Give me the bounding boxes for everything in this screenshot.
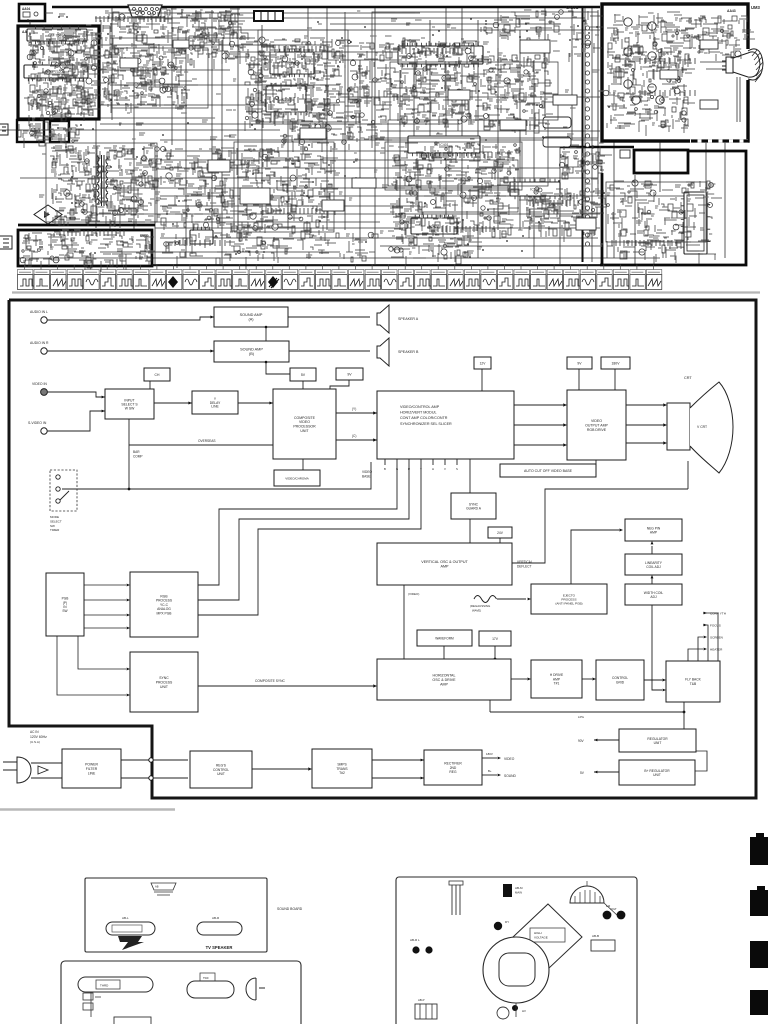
block: RGB process [130, 572, 198, 637]
degaussing wave symbol [474, 596, 497, 603]
wire: 12V to video control [481, 369, 483, 391]
wire: sync guard to vertical osc [469, 519, 471, 543]
block: sync process [130, 652, 198, 712]
board boundary AA04 (thick box, top-left) [19, 4, 45, 21]
svg-text:AB-L: AB-L [122, 916, 129, 920]
block: H drive amp [531, 660, 582, 698]
wire: vertical osc to neg pin loop [512, 489, 688, 563]
wire: video in to input select [47, 392, 105, 397]
op-amp IC U102 (audio amp 2, board AA7B) [24, 65, 88, 78]
svg-text:180V: 180V [486, 752, 493, 756]
wire: link sound amps [265, 327, 267, 341]
svg-text:HEATER: HEATER [710, 647, 723, 651]
svg-text:G: G [396, 467, 398, 471]
svg-text:12V: 12V [480, 361, 487, 365]
wire: large routing loops [46, 12, 706, 242]
wire: overseas line [129, 444, 273, 446]
wire: plug to power filter [31, 762, 62, 764]
svg-text:RGB DRIVE: RGB DRIVE [587, 428, 607, 432]
wire: reg control to smps [252, 768, 308, 770]
svg-text:S: S [456, 467, 458, 471]
cluster: CRT board right parts [687, 16, 755, 67]
svg-text:(A): (A) [248, 318, 254, 322]
black dots L-R [603, 911, 612, 920]
waveform: black diamond glyph 2 [268, 276, 278, 288]
binding mark 3 [750, 941, 768, 968]
cluster: medium discrete components [120, 40, 718, 230]
svg-text:UM31: UM31 [566, 5, 579, 10]
svg-text:5V: 5V [301, 373, 306, 377]
wire: rectifier outputs [482, 757, 497, 759]
connector block (thick bordered, 4-cell) [254, 11, 283, 21]
connector UM01 edge strip [582, 8, 584, 262]
block: video output amp [567, 390, 626, 460]
svg-text:HORIZ/VERT MODUL: HORIZ/VERT MODUL [400, 411, 437, 415]
svg-text:UNIT: UNIT [653, 773, 661, 777]
block: B+ regulator [619, 760, 695, 785]
wire: width coil down to flyback [652, 605, 662, 690]
svg-text:SOUND AMP: SOUND AMP [240, 313, 263, 317]
svg-text:SOUND BOARD: SOUND BOARD [277, 907, 303, 911]
pill component 2 [200, 973, 215, 981]
speaker A symbol [288, 316, 370, 318]
svg-text:AA43: AA43 [727, 9, 736, 13]
block: reg control [190, 751, 252, 788]
svg-text:COMP: COMP [133, 455, 143, 459]
svg-text:WAVEFORM: WAVEFORM [435, 636, 454, 640]
svg-text:UNIT: UNIT [654, 741, 662, 745]
svg-text:AB-B: AB-B [592, 934, 599, 938]
wire: composite to video control (C) [336, 439, 377, 441]
wire: video control to sync guard [469, 459, 471, 493]
svg-text:LPG: LPG [578, 715, 585, 719]
board boundary box below AA7B [17, 120, 44, 142]
svg-text:AB-R L: AB-R L [410, 938, 420, 942]
svg-text:UNIT: UNIT [300, 429, 309, 433]
wire: CH box to input select [149, 381, 151, 389]
cluster: audio board components [27, 30, 106, 126]
wire: regulator link right [695, 751, 707, 771]
svg-text:SYNCHRONIZER SEL SLICER: SYNCHRONIZER SEL SLICER [400, 422, 452, 426]
svg-text:DY: DY [505, 920, 509, 924]
svg-text:UM3: UM3 [751, 5, 761, 10]
svg-text:V: V [444, 467, 446, 471]
block: linearity coil [625, 554, 682, 575]
svg-text:POWER: POWER [85, 763, 98, 767]
svg-text:VOLT: VOLT [610, 907, 617, 911]
binding mark 2 [750, 890, 768, 916]
wire: bar comp vertical [128, 419, 130, 489]
block: clock generator [274, 470, 320, 486]
transformer T801 (chopper) [97, 155, 108, 206]
svg-text:AB-P: AB-P [418, 998, 425, 1002]
black connector block [503, 884, 512, 897]
svg-text:REG: REG [449, 770, 457, 774]
svg-text:AUDIO IN R: AUDIO IN R [30, 341, 49, 345]
IC U301 IF (wide DIP) [398, 46, 483, 64]
svg-text:GRID: GRID [616, 681, 625, 685]
block diagram outer frame [9, 300, 756, 798]
svg-text:AMP: AMP [441, 565, 450, 569]
svg-text:180V: 180V [612, 361, 621, 365]
board boundary CRT socket thick box [560, 146, 634, 149]
wire: s-video in to input select [47, 411, 105, 431]
AC plug symbol [17, 757, 31, 783]
cluster: right mid components [559, 145, 612, 184]
svg-text:FOCUS: FOCUS [710, 623, 721, 627]
svg-text:V CRT: V CRT [697, 425, 707, 429]
block: 180V supply [601, 357, 630, 369]
svg-text:(VIDEO): (VIDEO) [408, 592, 419, 596]
cluster: video drive components [480, 55, 558, 135]
svg-text:BASE: BASE [362, 475, 371, 479]
svg-text:CRT: CRT [684, 376, 692, 380]
svg-text:MODE: MODE [50, 515, 59, 519]
waveform: black diamond glyph 1 [168, 276, 178, 288]
svg-text:(B): (B) [249, 352, 255, 356]
svg-text:OSC & DRIVE: OSC & DRIVE [432, 678, 456, 682]
block: CH select small box [144, 368, 170, 381]
svg-text:90V: 90V [578, 739, 585, 743]
cluster: lower mid components [162, 232, 378, 269]
svg-text:W SW: W SW [125, 406, 135, 410]
svg-text:BAR: BAR [133, 450, 140, 454]
small speaker side glyph [246, 978, 265, 1000]
page edge artifact line [0, 808, 175, 810]
cluster: CRT board components [603, 12, 695, 136]
wire: output amp to CRT [626, 404, 663, 406]
svg-text:COMPOSITE: COMPOSITE [294, 416, 316, 420]
wire: supplies to output amp [578, 369, 580, 390]
svg-text:Y: Y [420, 467, 422, 471]
wire: ejecto top to neg pin [571, 530, 619, 584]
speaker R pill [197, 922, 242, 935]
wire: waveform cell feed ticks [25, 265, 654, 270]
svg-text:9V: 9V [577, 361, 582, 365]
block: 5V supply [290, 368, 316, 381]
svg-text:(ANTI PANEL PGB): (ANTI PANEL PGB) [555, 601, 582, 605]
cluster: AC input components [20, 232, 154, 272]
wire: degauss to ejecto [497, 598, 526, 600]
block: PGB input [46, 573, 84, 636]
block: Y delay line [192, 391, 238, 414]
svg-text:(C): (C) [352, 434, 356, 438]
wire: vertical signal buses [96, 8, 725, 264]
block: smps transformer [312, 749, 372, 788]
svg-text:AB-M: AB-M [515, 886, 523, 890]
wire: PGB bottom to sync process [78, 636, 126, 669]
wire: 17V to h-osc [494, 646, 496, 659]
wire: vertical osc down (video label) [403, 585, 405, 659]
wire: flyback HV outputs [703, 613, 718, 661]
cluster: chroma area components [245, 37, 350, 133]
svg-text:PROCESS: PROCESS [156, 680, 173, 684]
svg-text:VIDEO: VIDEO [299, 420, 310, 424]
block: power filter line [62, 749, 121, 788]
connector tab on speaker board [151, 883, 176, 895]
cluster: IF area components [398, 38, 487, 131]
svg-text:T#1: T#1 [554, 682, 560, 686]
svg-text:9V: 9V [347, 372, 352, 376]
block: video control amp [377, 391, 514, 459]
svg-text:LINE: LINE [211, 405, 219, 409]
svg-text:TV SPEAKER: TV SPEAKER [206, 945, 233, 950]
block: waveform generator [417, 630, 472, 646]
cluster: tuner top row [186, 12, 253, 69]
wire: top power rail bus [52, 6, 600, 9]
wire: 24V to vertical osc [499, 538, 501, 543]
wire: RGB staircase bus 2 [198, 459, 409, 600]
board outline: speaker board bottom [61, 961, 301, 1024]
svg-text:SYNC: SYNC [159, 676, 169, 680]
wire: smps to rectifier [372, 759, 424, 761]
svg-text:SELECT: SELECT [50, 519, 62, 523]
svg-text:SOUND: SOUND [504, 774, 517, 778]
IC U601 CRT drive (vertical package) [684, 192, 707, 254]
wire: thick chassis bus above waveform row [152, 264, 600, 266]
cluster: junction dots [27, 16, 610, 258]
block: sync guard A [451, 493, 496, 519]
svg-text:CONTROL: CONTROL [612, 676, 628, 680]
svg-text:SOUND AMP: SOUND AMP [240, 348, 263, 352]
svg-text:AB-R: AB-R [212, 916, 220, 920]
black dot FB [494, 922, 502, 930]
IC U402 sync jungle [411, 218, 457, 234]
block: neg pin amp [625, 519, 682, 541]
svg-text:AB: AB [155, 885, 159, 889]
connector pins top-left [449, 881, 463, 885]
board boundary AA43 CRT board (thick box, top-right) [602, 4, 748, 141]
CRT funnel (schematic top-right) [743, 49, 755, 80]
svg-text:SW: SW [62, 609, 67, 613]
wire: power filter to thick rail junctions [121, 759, 188, 761]
svg-text:FILTER: FILTER [86, 767, 98, 771]
svg-text:MPX PGB: MPX PGB [156, 611, 172, 615]
svg-text:L R: L R [606, 904, 610, 908]
block: width coil [625, 584, 682, 605]
svg-text:IC401: IC401 [439, 143, 449, 147]
block: regulator [619, 729, 696, 752]
IC U501 regulator [190, 230, 213, 244]
board boundary AA7B (thick box, left audio board) [18, 26, 99, 119]
svg-text:PROCESSOR: PROCESSOR [293, 425, 316, 429]
svg-text:SPEAKER A: SPEAKER A [398, 317, 419, 321]
svg-text:THRD: THRD [100, 984, 109, 988]
svg-text:(U.S.A): (U.S.A) [30, 740, 40, 744]
wire: h-drive to control grid [582, 678, 592, 680]
cluster: deflection components [388, 142, 533, 239]
switch: mode selector (dashed box) [50, 470, 77, 511]
board boundary box AA06 [50, 121, 69, 142]
bottom rectangle part [114, 1017, 151, 1024]
cluster: power primary components [50, 146, 170, 229]
block: 17V supply [479, 631, 511, 646]
cluster: component value label texture [28, 30, 102, 116]
svg-text:TIMER: TIMER [50, 528, 60, 532]
wire: dashed AA43 bottom accent [690, 139, 748, 143]
svg-text:(DEGAUSSING: (DEGAUSSING [470, 604, 491, 608]
cluster: power mid components [161, 147, 245, 233]
block: 9V supply [336, 368, 363, 380]
wire: horizontal signal buses [0, 13, 700, 258]
svg-text:GUARD A: GUARD A [466, 507, 482, 511]
wire: B+ regulator 5V output [594, 771, 619, 773]
svg-text:VIDEO/CONTROL AMP: VIDEO/CONTROL AMP [400, 405, 440, 409]
connector AC inlet (left edge) [0, 236, 12, 249]
wire: waveform gen to h-osc [443, 646, 445, 659]
block: 12V supply [474, 357, 491, 369]
board boundary AA05 power input (thick box bottom-left) [18, 224, 155, 227]
waveform chart row [18, 265, 662, 290]
svg-text:AMP: AMP [440, 682, 448, 686]
wire: RGB staircase bus 3 [198, 459, 421, 615]
block: input select switch [105, 389, 154, 419]
cluster: mid vertical parts [342, 41, 405, 125]
wire: 9V to composite [330, 380, 349, 389]
wire: CRT heater leads [700, 62, 740, 122]
flyback circle [483, 937, 549, 1003]
svg-text:S-VIDEO IN: S-VIDEO IN [28, 421, 47, 425]
diode bridge D801 [34, 205, 62, 224]
svg-text:HORIZONTAL: HORIZONTAL [433, 674, 456, 678]
svg-text:DEFLECT: DEFLECT [517, 565, 532, 569]
high voltage diamond [513, 904, 582, 969]
wire: audio L to sound amp [47, 317, 214, 320]
svg-text:VOLTAGE: VOLTAGE [534, 936, 548, 940]
bottom small parts [497, 1007, 509, 1019]
connector left-edge plug (mid) [0, 124, 8, 135]
block: flyback [666, 661, 720, 702]
block: horizontal osc and drive [377, 659, 511, 700]
svg-text:120V 60Hz: 120V 60Hz [30, 735, 47, 739]
block: 24V supply [488, 527, 512, 538]
speaker L label blob [118, 936, 144, 950]
svg-text:AUDIO IN L: AUDIO IN L [30, 310, 48, 314]
wire: video control to output amp R,G,B [514, 404, 563, 406]
wire: regulator 90V output [594, 739, 619, 741]
svg-text:17V: 17V [492, 637, 499, 641]
svg-text:HIGH: HIGH [534, 931, 542, 935]
svg-text:SPEAKER B: SPEAKER B [398, 350, 419, 354]
block: vertical osc and output [377, 543, 512, 585]
svg-text:VIDEO IN: VIDEO IN [32, 382, 47, 386]
svg-text:CH: CH [155, 373, 160, 377]
board outline: speaker board top [85, 878, 267, 952]
cluster: top tuner row components [101, 9, 243, 48]
cluster: high voltage components [607, 180, 722, 264]
wire: input select to Y delay [154, 402, 192, 404]
wire: flyback bottom bus LPG [683, 702, 685, 712]
cluster: resistor array comb rows [60, 16, 695, 246]
wire: composite bottom to clock gen [302, 459, 304, 470]
wire: output amp bottom to auto cutoff [595, 460, 597, 464]
IC U502 deflection [510, 182, 560, 196]
op-amp IC U101 (audio power amp, board AA7B) [27, 29, 87, 41]
svg-text:WAVE): WAVE) [472, 608, 481, 612]
svg-text:UNIT: UNIT [217, 772, 225, 776]
svg-text:AA04: AA04 [22, 7, 30, 11]
svg-text:COIL ADJ: COIL ADJ [646, 565, 661, 569]
svg-text:MAIN: MAIN [515, 891, 522, 895]
svg-text:UNIT: UNIT [160, 685, 168, 689]
wire: Y delay to composite processor [238, 402, 273, 404]
svg-text:FLY BACK: FLY BACK [685, 678, 701, 682]
IC U202 video chroma [266, 86, 306, 112]
wire: 5V to composite [302, 381, 304, 389]
IC U503 regulator pair [543, 117, 571, 128]
block: composite video processor [273, 389, 336, 459]
block: 9V supply right [567, 357, 592, 369]
svg-text:LINE: LINE [88, 771, 96, 775]
svg-text:VERTICAL OSC & OUTPUT: VERTICAL OSC & OUTPUT [421, 560, 468, 564]
wire: h-osc to h-drive [511, 678, 527, 680]
page scan shadow line below waveform row [12, 291, 760, 293]
svg-text:OVERSEAS: OVERSEAS [198, 439, 216, 443]
svg-text:AMP: AMP [650, 531, 658, 535]
svg-text:T&B: T&B [690, 682, 697, 686]
cluster: sync sep components [523, 187, 607, 242]
wire: composite to video control (Y) [336, 412, 377, 414]
block: control grid [596, 660, 644, 700]
svg-text:CONT AMP COLOR/CONTR: CONT AMP COLOR/CONTR [400, 416, 448, 420]
cluster: lower chroma components [237, 145, 339, 242]
svg-text:AC IN: AC IN [30, 730, 39, 734]
transistor Q801 / Q802 on CRT board [624, 18, 632, 26]
svg-text:T#2: T#2 [339, 771, 345, 775]
svg-text:B: B [384, 467, 386, 471]
wire: mode select bus [62, 462, 371, 489]
cluster: lower right components [389, 232, 482, 266]
speaker B symbol [289, 350, 370, 352]
wire: thick bottom-right boundary path [600, 151, 746, 265]
svg-text:SCREEN: SCREEN [710, 635, 723, 639]
CRT (picture tube) [667, 403, 690, 450]
wire: width to linearity arrow [651, 578, 653, 584]
svg-text:VIDEO/CHROMA: VIDEO/CHROMA [285, 476, 309, 480]
wire: RGB staircase bus 1 [198, 459, 397, 585]
svg-text:UM30: UM30 [140, 234, 149, 238]
cluster: mid bus components [280, 120, 392, 152]
board outline: main board [396, 877, 637, 1024]
cluster: left edge scatter [18, 122, 84, 153]
wire: PGB to RGB process (4 lines) [84, 584, 126, 586]
cluster: tuner area components [100, 43, 198, 113]
wire: linearity to neg pin arrow [651, 546, 653, 554]
wire: composite sync line [198, 685, 373, 687]
block: ejecto process [531, 584, 607, 614]
pill component 1 [78, 977, 153, 992]
binding mark 1 [750, 837, 768, 865]
svg-text:VIDEO: VIDEO [504, 757, 515, 761]
svg-text:HV: HV [522, 1009, 526, 1013]
IC U401 vertical output [408, 136, 480, 153]
svg-text:(Y): (Y) [352, 407, 356, 411]
svg-text:AUTO CUT OFF VIDEO BASE: AUTO CUT OFF VIDEO BASE [524, 469, 573, 473]
svg-text:SW: SW [50, 524, 55, 528]
speaker L pill [106, 922, 155, 935]
block: sound amp A [214, 307, 288, 327]
svg-text:TWD: TWD [203, 977, 209, 980]
block: sound amp B [214, 341, 289, 362]
small stacked parts [83, 993, 93, 1000]
IC U201 chroma [270, 52, 314, 74]
binding mark 4 [750, 990, 768, 1015]
svg-text:R: R [408, 467, 410, 471]
wire: control grid to flyback [644, 679, 662, 681]
svg-text:H: H [432, 467, 434, 471]
cluster: upper right scatter [481, 10, 604, 63]
wire: video control bottom pins [385, 459, 457, 465]
